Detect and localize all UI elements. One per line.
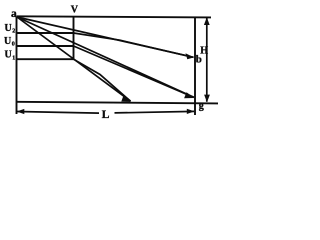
svg-text:L: L xyxy=(102,109,110,121)
svg-text:V: V xyxy=(71,5,79,16)
svg-text:2: 2 xyxy=(12,29,15,35)
svg-text:0: 0 xyxy=(12,42,15,48)
svg-text:1: 1 xyxy=(12,55,15,61)
svg-text:U: U xyxy=(5,49,12,60)
svg-text:b: b xyxy=(196,54,202,66)
svg-text:U: U xyxy=(5,23,12,34)
svg-text:U: U xyxy=(4,36,11,47)
svg-text:g: g xyxy=(199,100,204,111)
svg-text:a: a xyxy=(11,8,17,20)
